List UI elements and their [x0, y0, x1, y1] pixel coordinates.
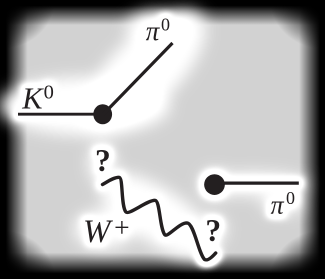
white halo around ink	[18, 14, 299, 259]
ink layer	[18, 14, 299, 259]
